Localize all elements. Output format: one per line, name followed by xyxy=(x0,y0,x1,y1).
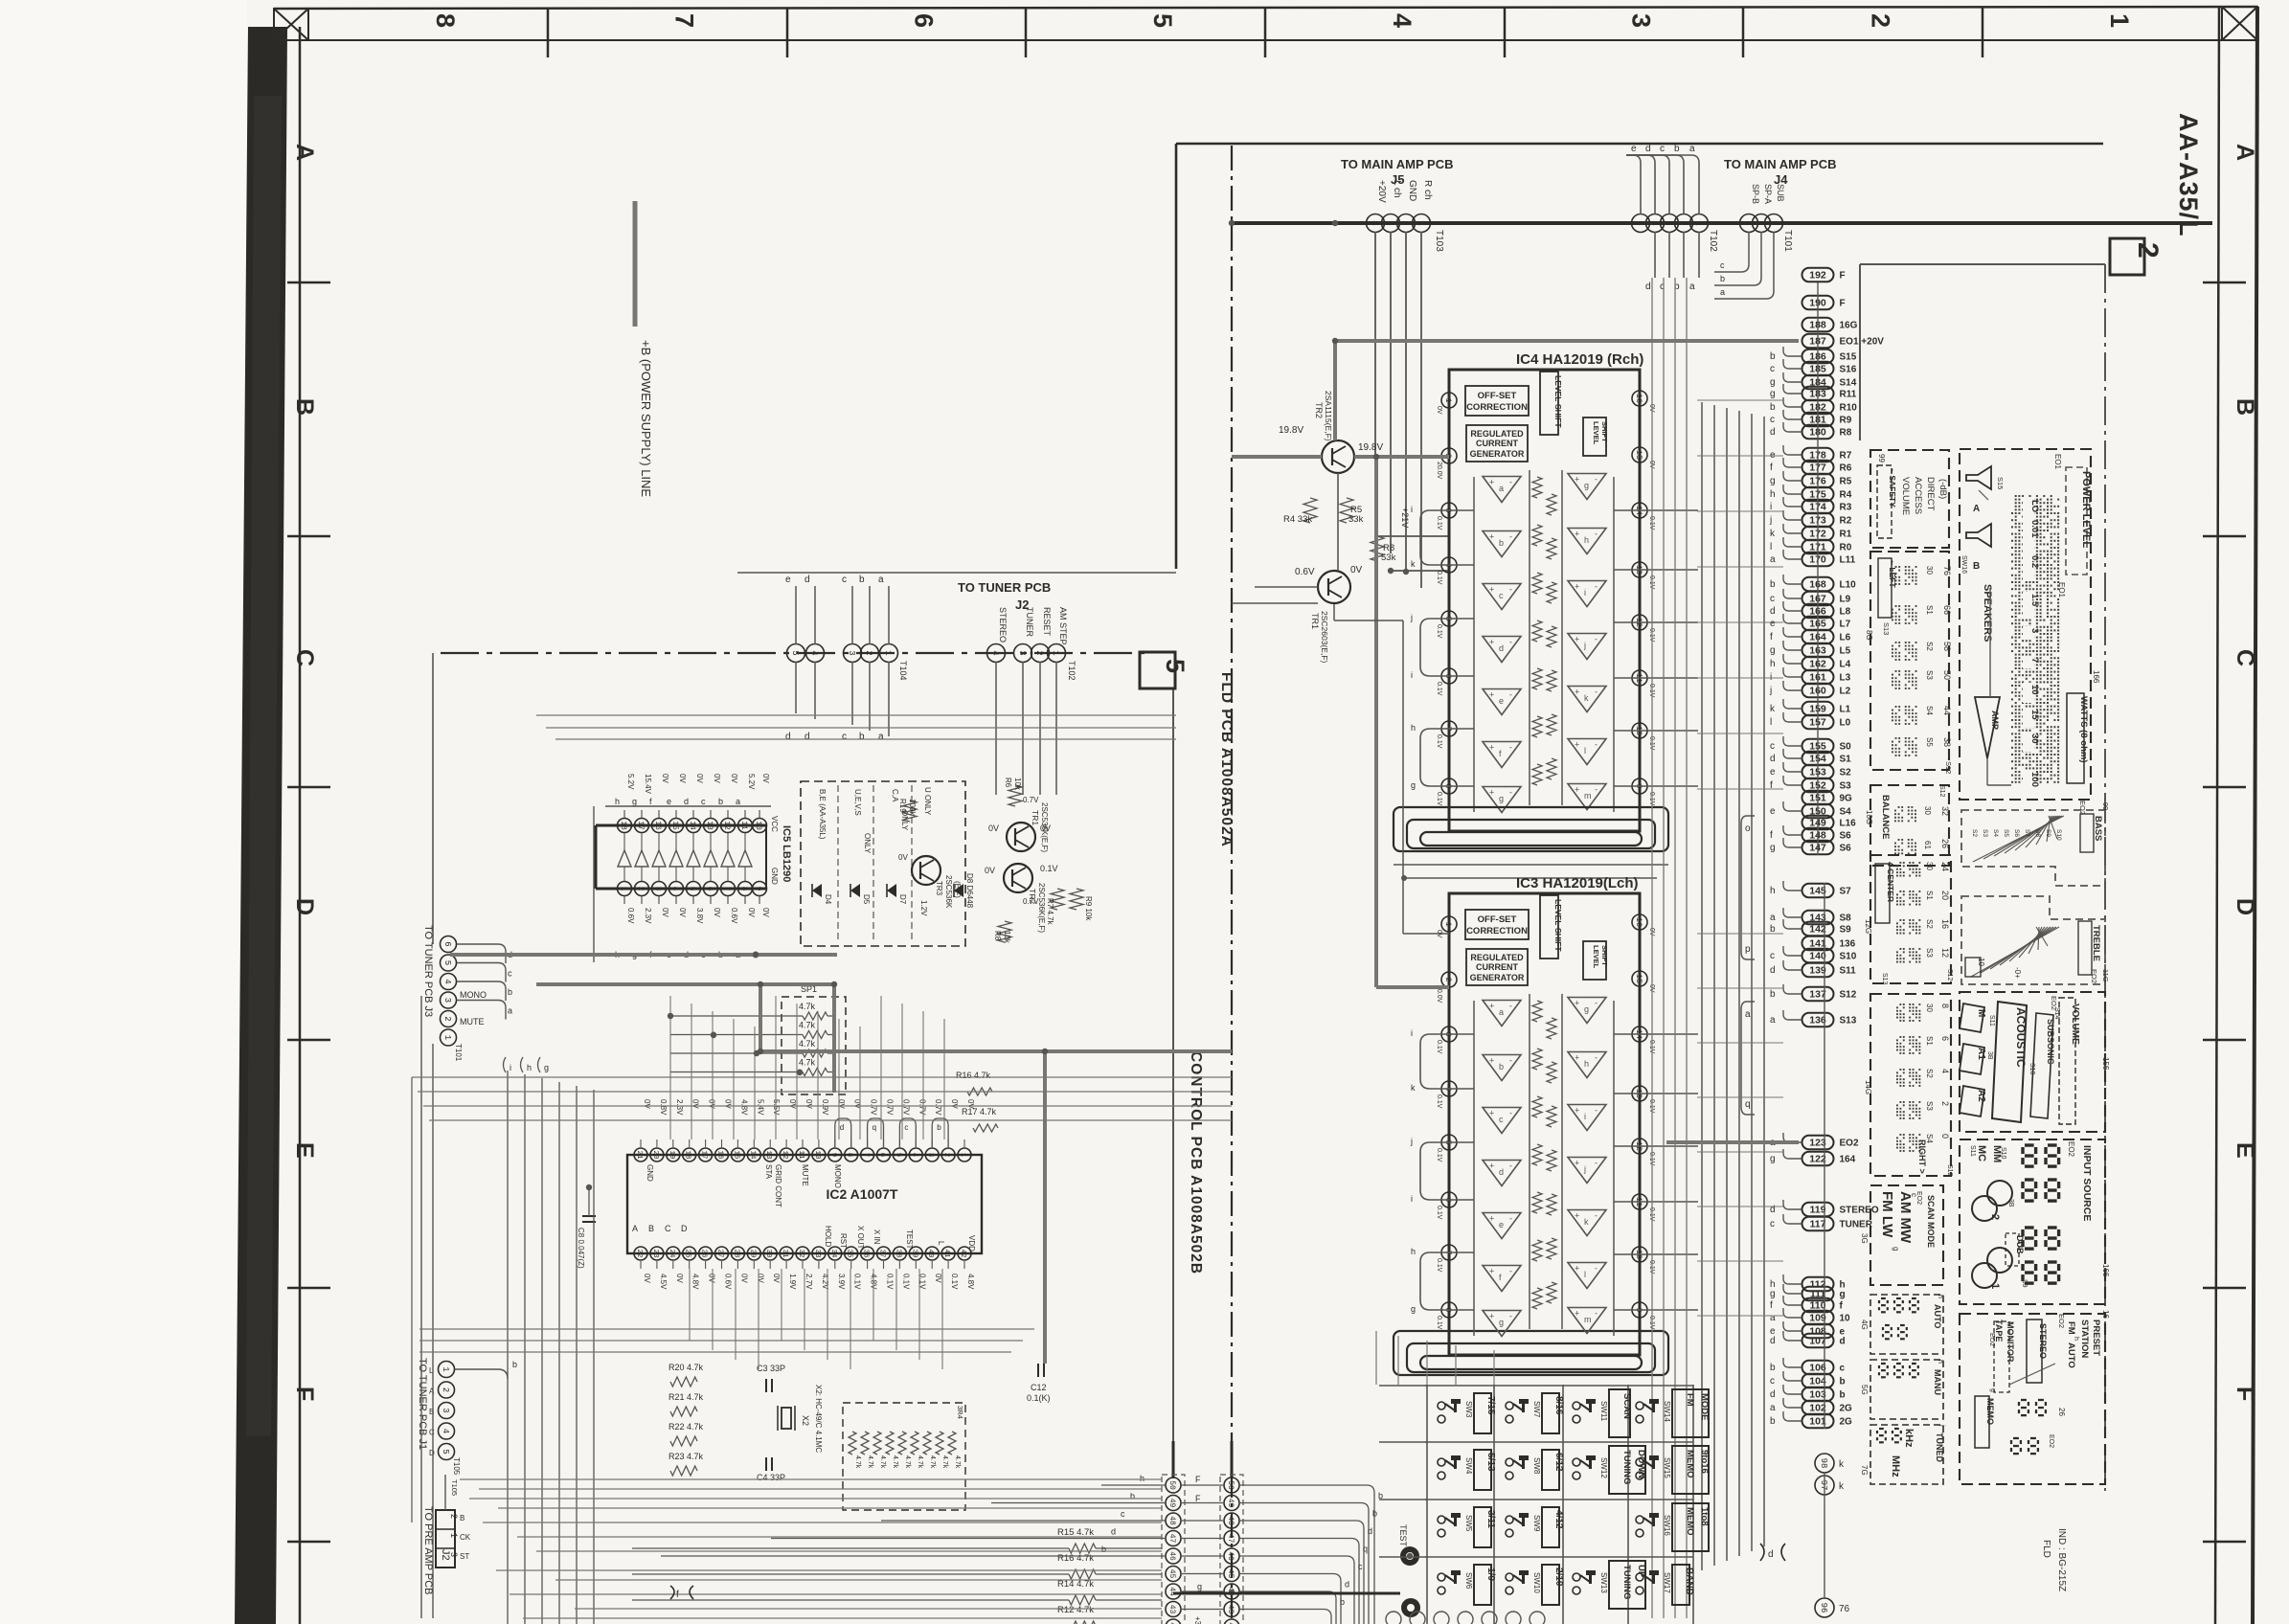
svg-text:0V: 0V xyxy=(708,1274,716,1283)
svg-text:g: g xyxy=(544,1063,549,1072)
svg-text:+: + xyxy=(1489,1267,1494,1276)
svg-text:SW11: SW11 xyxy=(1599,1401,1608,1422)
svg-text:STEREO: STEREO xyxy=(998,607,1008,643)
svg-text:b: b xyxy=(1499,538,1504,548)
svg-text:e: e xyxy=(1770,806,1776,817)
svg-text:4.2V: 4.2V xyxy=(821,1274,829,1290)
wire bundle: verticals above switch matrix xyxy=(1375,1331,1377,1385)
svg-text:3B: 3B xyxy=(2007,1199,2014,1207)
svg-text:AUTO: AUTO xyxy=(2066,1342,2076,1368)
panel: right block xyxy=(1870,994,1951,1176)
svg-text:h: h xyxy=(527,1063,532,1072)
svg-text:0V: 0V xyxy=(661,774,669,783)
transistor TR2 2SC536K(E,F) xyxy=(1004,864,1032,892)
svg-text:BALANCE: BALANCE xyxy=(1880,795,1891,839)
svg-text:MEMO: MEMO xyxy=(1685,1507,1695,1536)
switch matrix left stubs xyxy=(1379,1385,1427,1387)
svg-text:a: a xyxy=(878,575,884,585)
svg-text:A: A xyxy=(429,1387,435,1396)
svg-text:122: 122 xyxy=(1809,1154,1826,1165)
svg-text:S5: S5 xyxy=(2003,829,2009,837)
wire loops above T104 xyxy=(795,586,797,644)
svg-text:33k: 33k xyxy=(1348,514,1364,525)
resistor R5 33k xyxy=(1340,498,1353,523)
svg-text:c: c xyxy=(1499,1115,1504,1124)
svg-text:R6: R6 xyxy=(1004,778,1012,788)
transistor TR1 2SC536K(E,F) xyxy=(1007,823,1035,851)
svg-text:MUTE: MUTE xyxy=(460,1017,485,1026)
svg-text:+21V: +21V xyxy=(1400,507,1410,528)
switch SW16 MEMO 1to8 xyxy=(1636,1516,1643,1523)
option dashed box (diodes D4 D5 D7 D8, TR3) xyxy=(801,781,965,946)
svg-text:m: m xyxy=(1584,1315,1592,1324)
switch SW4 5/13 xyxy=(1438,1458,1445,1466)
bottom edge connector circles partial xyxy=(1386,1612,1401,1624)
svg-text:VDD: VDD xyxy=(967,1235,976,1252)
svg-text:j: j xyxy=(1410,1137,1413,1146)
STEREO boxed xyxy=(2027,1319,2042,1383)
feedback loop wraps below IC3 xyxy=(1394,1331,1668,1375)
svg-text:2: 2 xyxy=(942,1153,950,1158)
svg-text:S11: S11 xyxy=(1988,1015,1995,1026)
svg-text:c: c xyxy=(508,969,512,979)
svg-text:1to8: 1to8 xyxy=(1699,1507,1710,1526)
svg-text:0V: 0V xyxy=(678,774,687,783)
svg-text:32: 32 xyxy=(797,1249,805,1257)
panel: band indicator block xyxy=(1870,1185,1943,1285)
svg-text:-: - xyxy=(1595,1309,1598,1319)
svg-text:4.7k: 4.7k xyxy=(799,1039,816,1049)
svg-text:S15: S15 xyxy=(1840,352,1857,363)
svg-text:44: 44 xyxy=(1942,706,1952,715)
svg-text:TO PRE AMP PCB: TO PRE AMP PCB xyxy=(422,1506,434,1595)
svg-text:0V: 0V xyxy=(1436,406,1442,415)
svg-text:4: 4 xyxy=(441,1429,450,1433)
svg-text:A: A xyxy=(1973,504,1980,514)
svg-text:-: - xyxy=(1595,999,1598,1008)
svg-text:VOLUME: VOLUME xyxy=(2070,1004,2080,1045)
svg-text:S1: S1 xyxy=(1925,605,1934,615)
svg-text:CORRECTION: CORRECTION xyxy=(1466,926,1528,936)
svg-text:g: g xyxy=(1770,645,1776,656)
svg-text:b: b xyxy=(1130,1492,1135,1501)
svg-text:7G: 7G xyxy=(1860,1465,1869,1476)
svg-text:U ONLY: U ONLY xyxy=(923,787,932,816)
svg-text:SUB: SUB xyxy=(1776,184,1785,202)
svg-text:4.7k: 4.7k xyxy=(954,1455,961,1469)
svg-text:F: F xyxy=(2232,1387,2258,1401)
svg-text:+: + xyxy=(1575,1264,1579,1274)
svg-text:h: h xyxy=(1770,886,1776,896)
svg-text:b: b xyxy=(1101,1545,1106,1554)
svg-text:S10: S10 xyxy=(2000,1147,2006,1160)
svg-text:f: f xyxy=(1770,1300,1773,1311)
svg-text:S9: S9 xyxy=(2021,1279,2028,1288)
svg-text:R19: R19 xyxy=(898,799,907,813)
svg-text:j: j xyxy=(1583,641,1586,650)
svg-text:o: o xyxy=(1745,823,1751,834)
svg-text:AMP: AMP xyxy=(1990,710,2000,730)
svg-text:g: g xyxy=(632,797,637,806)
svg-text:a: a xyxy=(736,797,740,806)
svg-text:40: 40 xyxy=(926,1249,934,1258)
switch SW9 4/12 xyxy=(1506,1516,1513,1523)
svg-text:+: + xyxy=(1575,999,1579,1008)
svg-text:B: B xyxy=(1973,561,1980,572)
svg-text:PRESET: PRESET xyxy=(2091,1319,2101,1356)
ic IC5 LB1290 buffer array xyxy=(596,824,766,827)
transistor TR1 2SC2603 xyxy=(1318,571,1350,603)
svg-text:8: 8 xyxy=(846,1153,853,1158)
svg-text:SW12: SW12 xyxy=(1599,1457,1608,1478)
svg-text:g: g xyxy=(1770,1154,1776,1164)
svg-text:-: - xyxy=(1509,1214,1512,1224)
svg-text:T103: T103 xyxy=(1434,230,1444,252)
svg-text:16: 16 xyxy=(716,1150,724,1160)
ACOUSTIC slanted box xyxy=(1992,1002,2027,1122)
svg-text:0V: 0V xyxy=(661,908,669,917)
svg-text:0.6V: 0.6V xyxy=(1295,567,1315,577)
switch SW5 3/11 xyxy=(1438,1516,1445,1523)
svg-text:e: e xyxy=(1770,619,1776,629)
svg-text:g: g xyxy=(1989,1388,1996,1392)
svg-text:MODE: MODE xyxy=(1699,1393,1710,1421)
svg-text:L7: L7 xyxy=(1840,620,1851,630)
svg-text:29: 29 xyxy=(748,1249,756,1257)
svg-text:1: 1 xyxy=(1768,220,1778,225)
diode D7 xyxy=(887,884,896,897)
svg-text:h: h xyxy=(1770,659,1776,669)
microcontroller IC2 A1007T xyxy=(627,1155,982,1253)
amp triangle icon xyxy=(1975,697,2000,758)
svg-text:5: 5 xyxy=(894,1153,901,1158)
svg-text:L9: L9 xyxy=(1840,595,1851,605)
svg-text:-: - xyxy=(1595,785,1598,795)
svg-text:R16 4.7k: R16 4.7k xyxy=(1057,1553,1094,1564)
svg-text:2SA1115(E,F): 2SA1115(E,F) xyxy=(1324,391,1333,441)
switch SW13 TUNING UP xyxy=(1573,1573,1580,1581)
svg-text:97: 97 xyxy=(1819,1480,1828,1491)
svg-text:TUNER: TUNER xyxy=(1025,607,1034,637)
selector circles 2 / 1 xyxy=(1987,1181,2012,1206)
svg-text:IC3 HA12019(Lch): IC3 HA12019(Lch) xyxy=(1516,875,1639,891)
svg-text:e: e xyxy=(1770,767,1776,778)
svg-text:4.7k: 4.7k xyxy=(799,1021,816,1030)
border frame: top ruler band xyxy=(274,7,2257,9)
svg-text:0V: 0V xyxy=(788,1099,797,1109)
svg-text:g: g xyxy=(1584,1004,1589,1014)
svg-text:GRID CONT: GRID CONT xyxy=(774,1164,782,1207)
svg-text:18: 18 xyxy=(619,821,627,830)
svg-text:f: f xyxy=(1770,830,1773,841)
svg-text:e: e xyxy=(1631,144,1637,154)
bundle brackets i h g xyxy=(504,1057,507,1072)
svg-text:SW6: SW6 xyxy=(1464,1572,1473,1590)
svg-text:3R4: 3R4 xyxy=(956,1406,964,1419)
svg-text:R23 4.7k: R23 4.7k xyxy=(669,1452,704,1461)
svg-text:S3: S3 xyxy=(1925,948,1934,958)
svg-text:0V: 0V xyxy=(966,1099,975,1109)
svg-text:AM STEP: AM STEP xyxy=(1058,607,1068,645)
svg-text:MHz: MHz xyxy=(1890,1455,1901,1477)
svg-text:19.8V: 19.8V xyxy=(1279,425,1303,436)
svg-text:0: 0 xyxy=(1940,1134,1950,1139)
svg-text:-: - xyxy=(1509,743,1512,753)
svg-text:OFF-SET: OFF-SET xyxy=(1478,391,1517,401)
panel: power level scale numbers xyxy=(2023,498,2034,518)
svg-text:R21 4.7k: R21 4.7k xyxy=(669,1392,704,1402)
svg-text:T101: T101 xyxy=(1782,230,1793,252)
svg-text:0.1V: 0.1V xyxy=(1436,792,1442,806)
svg-text:2: 2 xyxy=(1940,1101,1950,1106)
svg-text:1/9: 1/9 xyxy=(1485,1568,1496,1581)
svg-text:+: + xyxy=(1489,1312,1494,1321)
panel: input source block xyxy=(1960,1139,2105,1304)
svg-text:STEREO: STEREO xyxy=(2038,1323,2048,1359)
svg-text:d: d xyxy=(1840,1337,1846,1347)
svg-text:2: 2 xyxy=(636,887,645,891)
svg-text:S16: S16 xyxy=(1840,365,1857,375)
svg-text:SCAN MODE: SCAN MODE xyxy=(1926,1195,1936,1248)
svg-text:0.1V: 0.1V xyxy=(1436,571,1442,585)
connector T102 xyxy=(1632,214,1650,233)
svg-text:S2: S2 xyxy=(1925,642,1934,651)
oval column left letter stubs xyxy=(1783,347,1802,356)
svg-text:+: + xyxy=(1575,1053,1579,1063)
tall letter rails right of ICs xyxy=(1741,816,1755,959)
svg-text:15: 15 xyxy=(732,1150,739,1160)
scan gutter black bar xyxy=(235,27,287,1624)
svg-text:c: c xyxy=(1358,1562,1363,1571)
svg-text:S2: S2 xyxy=(1925,919,1934,929)
svg-text:SW7: SW7 xyxy=(1532,1401,1541,1418)
svg-text:107: 107 xyxy=(1809,1336,1826,1347)
svg-text:0.2: 0.2 xyxy=(2029,555,2040,568)
svg-text:9to16: 9to16 xyxy=(1699,1450,1710,1474)
svg-text:TEST: TEST xyxy=(905,1229,914,1250)
svg-text:a: a xyxy=(508,1006,512,1016)
svg-text:q: q xyxy=(1745,1099,1751,1110)
svg-text:-: - xyxy=(1595,1106,1598,1116)
svg-text:CORRECTION: CORRECTION xyxy=(1466,402,1528,413)
svg-text:S10: S10 xyxy=(1840,952,1857,962)
svg-text:T102: T102 xyxy=(1708,230,1718,252)
svg-text:0V: 0V xyxy=(985,866,995,875)
svg-text:i: i xyxy=(510,1063,511,1072)
svg-text:i: i xyxy=(1770,502,1772,512)
svg-text:3.8V: 3.8V xyxy=(695,908,704,924)
bass fan lines xyxy=(1973,816,2064,862)
svg-text:5.2V: 5.2V xyxy=(626,774,635,790)
svg-text:S1: S1 xyxy=(1925,1036,1934,1046)
svg-text:4.7k: 4.7k xyxy=(892,1455,898,1469)
svg-text:MUTE: MUTE xyxy=(801,1164,809,1186)
svg-text:0.01: 0.01 xyxy=(2029,520,2040,538)
svg-text:MEMO: MEMO xyxy=(1685,1450,1695,1478)
svg-text:117: 117 xyxy=(1810,1219,1826,1230)
svg-text:61: 61 xyxy=(1923,841,1932,849)
M A1 A2 boxes xyxy=(1960,1004,1984,1032)
svg-text:h: h xyxy=(1770,489,1776,500)
svg-text:0V: 0V xyxy=(713,908,721,917)
svg-text:14: 14 xyxy=(688,821,696,830)
svg-text:-: - xyxy=(1509,1312,1512,1321)
svg-text:24: 24 xyxy=(668,1249,675,1258)
svg-text:4: 4 xyxy=(670,887,679,891)
svg-text:4.7k: 4.7k xyxy=(879,1455,886,1469)
svg-text:S9: S9 xyxy=(1840,925,1852,936)
svg-text:1: 1 xyxy=(1443,397,1453,402)
svg-text:35: 35 xyxy=(846,1249,853,1258)
svg-text:R3: R3 xyxy=(1840,503,1852,513)
panel: center block xyxy=(1870,855,1951,983)
svg-text:c: c xyxy=(1770,415,1775,425)
svg-text:S10: S10 xyxy=(2055,829,2062,841)
svg-text:0.1V: 0.1V xyxy=(1436,1094,1442,1109)
svg-text:d: d xyxy=(1345,1580,1349,1590)
switch SW11 SCAN xyxy=(1573,1402,1580,1410)
svg-text:FLD: FLD xyxy=(2041,1540,2051,1558)
svg-text:c: c xyxy=(1770,364,1775,374)
svg-text:S3: S3 xyxy=(1840,781,1852,792)
svg-text:+20V: +20V xyxy=(1376,180,1387,203)
panel: direct access volume block xyxy=(1870,450,1949,548)
svg-text:g: g xyxy=(1411,780,1416,790)
svg-text:a: a xyxy=(1770,554,1776,565)
svg-text:1: 1 xyxy=(441,1366,450,1371)
svg-text:b: b xyxy=(1770,1416,1776,1427)
IC2 pin capsule loops xyxy=(835,1118,851,1147)
svg-text:3: 3 xyxy=(926,1153,934,1158)
svg-text:AA-A35/L: AA-A35/L xyxy=(2174,113,2203,237)
svg-text:5: 5 xyxy=(688,887,696,891)
svg-text:-: - xyxy=(1509,1056,1512,1066)
svg-text:23: 23 xyxy=(651,1249,659,1258)
svg-text:-: - xyxy=(1509,1162,1512,1171)
panel: preset station block xyxy=(1960,1314,2105,1484)
svg-text:j: j xyxy=(1769,686,1772,696)
svg-text:CURRENT: CURRENT xyxy=(1476,439,1519,448)
svg-text:1: 1 xyxy=(2105,13,2134,28)
svg-text:g: g xyxy=(1770,377,1776,388)
svg-text:TR1: TR1 xyxy=(1031,810,1040,825)
svg-text:142: 142 xyxy=(1809,924,1826,936)
svg-text:S2: S2 xyxy=(1840,768,1852,778)
switch SW10 2/10 xyxy=(1506,1573,1513,1581)
svg-text:48: 48 xyxy=(1226,1516,1235,1525)
svg-text:24: 24 xyxy=(1940,862,1950,871)
border frame: left border xyxy=(299,27,302,1624)
svg-text:0V: 0V xyxy=(675,1274,684,1283)
svg-text:a: a xyxy=(1499,1007,1504,1017)
svg-text:10k: 10k xyxy=(1013,778,1022,791)
SAFETY box xyxy=(1877,465,1892,538)
svg-text:33: 33 xyxy=(813,1249,821,1258)
svg-text:5: 5 xyxy=(442,960,452,965)
svg-text:-: - xyxy=(1509,638,1512,647)
svg-text:h: h xyxy=(1584,535,1589,545)
svg-text:+: + xyxy=(1575,1211,1579,1221)
svg-text:d: d xyxy=(1770,1389,1776,1400)
svg-text:10: 10 xyxy=(754,821,762,830)
svg-text:-: - xyxy=(1595,635,1598,644)
svg-text:20: 20 xyxy=(651,1150,659,1160)
svg-text:4.7k: 4.7k xyxy=(917,1455,923,1469)
svg-text:0.1V: 0.1V xyxy=(901,1274,910,1290)
svg-text:13: 13 xyxy=(705,821,714,830)
svg-text:e: e xyxy=(1499,1220,1504,1229)
svg-text:48: 48 xyxy=(1167,1516,1176,1525)
svg-text:LEVEL: LEVEL xyxy=(1553,375,1563,401)
panel: power level LED halftone band xyxy=(2011,495,2059,783)
svg-text:-: - xyxy=(1509,690,1512,700)
svg-text:a: a xyxy=(1770,1313,1776,1323)
svg-text:+: + xyxy=(1489,1002,1494,1011)
svg-text:T101: T101 xyxy=(454,1044,463,1062)
panel: left level block xyxy=(1870,552,1949,770)
IC5 outer wire rails xyxy=(593,806,595,962)
svg-text:EO2: EO2 xyxy=(2048,1434,2054,1448)
svg-text:42: 42 xyxy=(959,1249,966,1257)
svg-text:R9: R9 xyxy=(1840,416,1852,426)
svg-text:6: 6 xyxy=(878,1153,886,1158)
svg-text:2/10: 2/10 xyxy=(1553,1568,1564,1587)
switch SW8 6/12 xyxy=(1506,1458,1513,1466)
svg-text:4.8V: 4.8V xyxy=(739,1099,748,1116)
svg-text:20.0V: 20.0V xyxy=(1436,462,1442,480)
svg-text:2: 2 xyxy=(441,1387,450,1392)
svg-text:R8: R8 xyxy=(993,931,1002,941)
vertical trunk bundle between IC and ovals xyxy=(1701,402,1703,1570)
svg-text:IC2 A1007T: IC2 A1007T xyxy=(827,1186,898,1202)
thick grey signal bus horizontal y997 xyxy=(450,953,837,957)
svg-text:98: 98 xyxy=(1819,1458,1828,1469)
svg-text:4.7k: 4.7k xyxy=(799,1058,816,1068)
svg-text:5/13: 5/13 xyxy=(1485,1453,1496,1472)
svg-text:47: 47 xyxy=(1226,1534,1235,1544)
svg-text:C: C xyxy=(429,1429,435,1437)
svg-text:h: h xyxy=(1411,1247,1416,1256)
svg-text:7: 7 xyxy=(2029,658,2040,663)
svg-text:0V: 0V xyxy=(643,1099,651,1109)
svg-text:c: c xyxy=(1840,1364,1846,1374)
svg-text:TO TUNER PCB J1: TO TUNER PCB J1 xyxy=(417,1358,428,1450)
svg-text:b: b xyxy=(859,732,865,742)
svg-text:15: 15 xyxy=(1634,974,1643,983)
svg-text:2: 2 xyxy=(1866,13,1894,28)
svg-text:2: 2 xyxy=(449,1514,459,1519)
svg-text:TUNING: TUNING xyxy=(1621,1450,1632,1484)
svg-text:X2: HC-49/C 4.1MC: X2: HC-49/C 4.1MC xyxy=(814,1385,823,1453)
svg-text:+: + xyxy=(1575,688,1579,697)
svg-text:C8 0.047(Z): C8 0.047(Z) xyxy=(577,1228,585,1269)
svg-text:j: j xyxy=(1410,613,1413,622)
svg-text:0V: 0V xyxy=(724,1099,733,1109)
svg-text:53k: 53k xyxy=(1381,553,1396,563)
FLD display boundary box xyxy=(1860,263,2105,265)
svg-text:76: 76 xyxy=(1942,566,1952,575)
svg-text:4: 4 xyxy=(1940,1069,1950,1073)
svg-text:0.6V: 0.6V xyxy=(730,908,738,924)
TAPE MONITOR xyxy=(1994,1321,2009,1392)
svg-text:S6: S6 xyxy=(1840,844,1852,854)
svg-text:ONLY: ONLY xyxy=(863,833,872,854)
svg-text:k: k xyxy=(1584,1217,1589,1227)
svg-text:OFF-SET: OFF-SET xyxy=(1478,914,1517,925)
pushbutton switch matrix xyxy=(1425,1385,1693,1387)
svg-text:8G: 8G xyxy=(1865,630,1873,641)
svg-text:b: b xyxy=(1770,351,1776,362)
